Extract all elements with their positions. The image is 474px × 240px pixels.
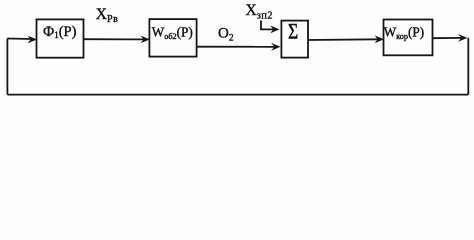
svg-text:Σ: Σ xyxy=(288,20,298,44)
wire feedback right vertical xyxy=(467,38,469,95)
wire setpoint Xzp2 elbow into summer xyxy=(261,21,274,30)
summer box xyxy=(281,21,308,58)
wire feedback input to block 1 xyxy=(7,38,32,41)
wire feedback bottom horizontal xyxy=(7,94,468,96)
svg-text:Ф1(P): Ф1(P) xyxy=(43,24,77,40)
arrowhead into block1 xyxy=(28,36,37,44)
block F1 (Ф1(P)) xyxy=(37,19,84,57)
wire feedback left vertical xyxy=(6,39,8,95)
block Wob2 xyxy=(149,19,196,57)
arrowhead into summer lower (O2) xyxy=(271,43,280,51)
wire block3 output xyxy=(433,37,462,39)
arrowhead into block2 xyxy=(141,36,150,44)
wire summer to block3 xyxy=(308,38,378,41)
wire block2 to summer (O2 signal) xyxy=(197,46,275,48)
arrowhead output right xyxy=(458,34,467,42)
wire block1 to block2 xyxy=(84,38,145,40)
block Wkor xyxy=(384,20,433,56)
arrowhead into summer upper (Xzp2) xyxy=(270,26,279,34)
arrowhead into block3 xyxy=(375,35,384,43)
